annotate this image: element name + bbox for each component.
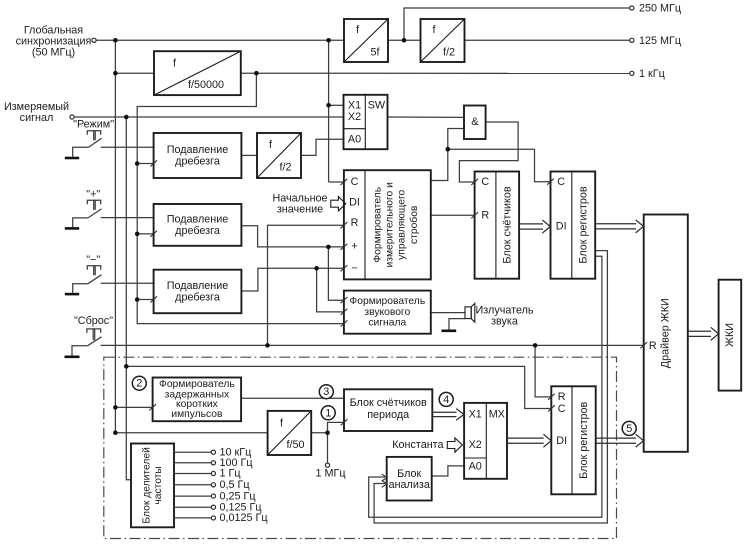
node label 3 [319,385,333,399]
svg-text:2: 2 [136,378,142,390]
wire: debounce 3 output to minus input of strobe former [241,268,344,291]
svg-text:R: R [481,210,489,222]
switch "Sbros" (push button) [72,329,102,356]
svg-text:C: C [481,176,489,188]
switch block SW with X1 X2 A0 [344,95,388,149]
label: Izluchatel zvuka [475,305,533,328]
node: clock tap debounce 2 [135,232,140,237]
terminal: 125 MHz output [630,38,634,42]
bus: LCD driver to LCD [688,327,719,340]
svg-text:анализа: анализа [389,479,430,491]
wire: Sbros reset line to LCD driver R [101,344,644,346]
wire: strobe-former output 1 to AND input 2 [431,129,464,181]
block arrow input: Konstanta to X2 [447,438,462,452]
wire: sound former output to sound emitter [431,312,465,314]
delayed short pulse former (Formirovatel zaderzhannykh korotkikh impulsov) [153,378,242,422]
terminal: 0,125 Hz output [174,506,211,508]
svg-text:0,0125 Гц: 0,0125 Гц [220,512,268,524]
svg-text:Блок регистров: Блок регистров [578,401,590,478]
svg-text:X2: X2 [348,111,361,123]
svg-text:ЖКИ: ЖКИ [724,323,736,347]
wire: minus switch to debounce 3 [101,282,154,284]
terminal: 1 Hz output [174,473,211,475]
svg-text:стробов: стробов [408,205,420,244]
multiplexer MX with X1 X2 A0 [464,403,507,479]
svg-text:A0: A0 [348,134,361,146]
LCD driver (Drayver ZhKI) [644,215,688,452]
svg-text:"Сброс": "Сброс" [74,315,113,327]
ground: Rezhim switch [65,157,79,160]
svg-text:f/2: f/2 [443,47,455,59]
ground: sound emitter [442,329,457,332]
svg-text:управляющего: управляющего [397,190,408,260]
wire: clock stub debounce 1 [137,163,153,165]
node label 2 [132,376,146,390]
svg-text:4: 4 [443,394,449,406]
wire: f/50000 output to 1 kHz terminal [241,72,630,74]
svg-text:5f: 5f [370,47,380,59]
wire: upper register stub 1 down to analysis block input 2 [374,251,607,523]
svg-text:Драйвер ЖКИ: Драйвер ЖКИ [660,298,672,368]
node label 5 [622,421,636,435]
node: delayed pulse former feed tap [113,405,118,410]
wire: stub to SW X1 [329,104,344,106]
AND gate U5 [464,106,486,140]
svg-text:R: R [351,217,359,229]
slash: lower register C [548,405,555,411]
node: minus branch tap [314,266,319,271]
wire: plus branch to sound former input 1 [328,247,344,300]
wire: reset branch down to R of lower register block [535,345,551,397]
svg-text:частоты: частоты [153,466,164,504]
svg-text:SW: SW [368,100,386,112]
svg-text:Подавление: Подавление [167,144,229,156]
wire: measured signal to SW X2 [74,116,344,118]
svg-text:1 Гц: 1 Гц [220,468,241,480]
wire: minus branch to sound former input 2 [317,268,344,312]
svg-text:DI: DI [556,435,567,447]
terminal: 0,5 Hz output [174,484,211,486]
strobe former (Formirovatel izmeritelnogo i upravlyayushchego strobov) [344,170,431,279]
svg-text:X1: X1 [348,100,361,112]
svg-text:R: R [649,340,657,352]
node: AND input branch tap [446,147,451,152]
slash: strobe former plus [341,244,348,250]
wire: sound emitter return to ground [449,319,465,330]
counter block (Blok schetchikov) [475,172,519,279]
LCD (ZhKI) [719,280,742,391]
svg-text:Блок счётчиков: Блок счётчиков [502,186,514,263]
wire: clock stub debounce 2 [137,233,153,235]
svg-text:Блок регистров: Блок регистров [578,186,590,263]
slash: counter block R [471,212,478,218]
svg-text:+: + [351,241,357,253]
arrowhead: analysis block input 1 [382,474,387,481]
divider block U3 f/2 (top) [421,19,465,62]
wire: 50 MHz stub to delayed pulse former [115,406,152,408]
divider block U1 f/50000 [154,51,241,95]
wire: plus switch to debounce 2 [101,217,154,219]
svg-text:дребезга: дребезга [175,156,220,168]
terminal: 250 MHz output [630,6,634,10]
svg-text:звука: звука [491,315,518,327]
divider block U4 f/2 (debounce row) [257,133,301,178]
svg-text:дребезга: дребезга [175,292,220,304]
slash: LCD driver R [640,342,647,348]
block arrow input: Nachalnoe znachenie to DI [331,197,346,211]
slash: debounce 2 clock [150,231,157,237]
wire: 50 MHz vertical distribution [114,40,116,432]
wire: feed to f/50000 [115,72,154,74]
node: f/50 feed corner tap [113,430,118,435]
svg-text:Формирователь: Формирователь [349,296,425,307]
wire: strobe-former output 2 to R of counter block [431,214,475,216]
node: f/50000 feed tap [113,71,118,76]
wire: measured signal vertical down to frequency divider [126,117,131,480]
svg-text:X2: X2 [469,439,482,451]
terminal: 10 kHz output [174,451,211,453]
svg-text:3: 3 [323,386,329,398]
svg-text:250 МГц: 250 МГц [639,3,681,15]
wire: SW output to AND gate input 1 [388,116,465,118]
wire: f/2 output to SW A0 [301,139,344,155]
switch "+" (push button) [73,200,102,227]
svg-text:f/50: f/50 [286,439,304,451]
wire: C input of strobe former [329,181,344,183]
svg-text:Блок счётчиков: Блок счётчиков [350,397,427,409]
slash: strobe former C [341,179,348,185]
svg-text:−: − [351,263,357,275]
svg-text:R: R [558,391,566,403]
svg-text:1 МГц: 1 МГц [315,468,345,480]
debounce block 2 (Podavlenie drebezga) [154,204,242,246]
wire: 250 MHz branch [404,8,630,40]
node label 4 [439,392,453,406]
terminal: 0,25 Hz output [174,495,211,497]
label: Nachalnoe znachenie [272,193,327,216]
debounce block 3 (Podavlenie drebezga) [154,270,242,314]
terminal: 0,0125 Hz output [174,517,211,519]
terminal: global sync input [92,38,96,42]
switch "-" (push button) [73,266,102,293]
wire: analysis block output to mux A0 [432,466,464,476]
svg-text:f/2: f/2 [279,162,291,174]
svg-text:A0: A0 [469,460,482,472]
node: reset line tap right [533,343,538,348]
wire: debounce 2 output to plus input of strobe former [241,226,344,247]
wire: clock stub debounce 3 [137,299,153,301]
slash: sound former clock [341,320,348,326]
slash: lower register R [548,394,555,400]
slash: counter block C [471,179,478,185]
analysis block (Blok analiza) [387,457,432,501]
svg-text:DI: DI [349,197,360,209]
slash: debounce 1 clock [150,160,157,166]
slash: sound former input 2 [341,309,348,315]
node: clock tap debounce 3 [135,297,140,302]
terminal: 1 kHz output [630,71,634,75]
svg-text:X1: X1 [469,409,482,421]
wire: measured signal branch to C of lower register block [126,366,551,408]
wire: global sync line to f/5f [96,39,344,41]
bus: counter block to register block DI [519,220,550,233]
wire: 125 MHz output [465,39,630,41]
wire: Rezhim switch to debounce 1 [101,146,154,148]
slash: strobe former minus [341,265,348,271]
slash: sound former input 1 [341,297,348,303]
terminal: measured signal input [70,115,74,119]
node: plus branch tap [326,245,331,250]
bus: lower register to LCD driver (5) [596,434,644,447]
svg-text:значение: значение [277,203,323,215]
svg-text:сигнала: сигнала [368,318,406,329]
wire: 50 MHz vertical to SW.X1 and strobe-former C [328,40,330,182]
bus: mux to lower register DI [507,434,551,447]
svg-text:звукового: звукового [364,307,410,318]
wire: 50 MHz feed to f/50 [115,432,267,434]
label: Globalnaya sinkhronizatsiya (50 MGts) [16,25,92,59]
boundary of measuring section (dash-dot frame) [104,357,617,538]
wire: AND output to C of counter block [459,122,518,182]
node: 250MHz tap [402,38,407,43]
wire: upper register stub 2 down to analysis block input 1 [369,256,602,517]
node: 5f input tap [326,38,331,43]
svg-text:C: C [351,176,359,188]
sound former (Formirovatel zvukovogo signala) [344,291,431,334]
svg-text:Подавление: Подавление [167,214,229,226]
bus: upper register block to LCD driver [595,220,643,233]
node: SW X1 tap [326,103,331,108]
svg-text:Блок: Блок [397,468,421,480]
terminal: 100 Hz output [174,462,211,464]
switch "Rezhim" (push button) [73,131,102,157]
svg-text:125 МГц: 125 МГц [639,35,681,47]
svg-text:(50 МГц): (50 МГц) [32,47,75,59]
svg-text:C: C [558,403,566,415]
label: Izmeryaemyy signal [4,101,69,124]
sound emitter (Izluchatel zvuka) [465,303,475,322]
frequency divider bank (Blok deliteley chastoty) [131,444,174,528]
node label 1 [321,406,335,420]
svg-text:5: 5 [626,423,632,435]
wire: reset branch up to R of strobe former [268,225,344,345]
svg-text:импульсов: импульсов [171,409,223,420]
node: reset line tap left [265,343,270,348]
node: measured signal tap [124,115,129,120]
wire: 1 kHz down-branch to debounce clocks and sound clock [137,73,344,323]
svg-text:f/50000: f/50000 [188,79,224,91]
multiplier block U2 5f [344,19,388,62]
svg-text:&: & [471,116,479,128]
node: measured signal lower tap [124,364,129,369]
svg-text:"Режим": "Режим" [73,119,114,131]
register block upper (Blok registrov) [551,172,596,279]
ground: Sbros switch [65,355,80,358]
divider block U6 f/50 [268,411,312,455]
arrowhead: analysis block input 2 [382,480,387,487]
terminal: 1 MHz output [325,463,329,467]
svg-text:Блок делителей: Блок делителей [142,447,153,524]
ground: minus switch [65,293,79,296]
node: clock tap debounce 1 [135,161,140,166]
svg-text:DI: DI [556,220,567,232]
svg-text:0,5 Гц: 0,5 Гц [220,479,250,491]
bus: period counter to mux X1 [432,409,464,421]
register block lower (Blok registrov) [551,386,595,494]
svg-text:C: C [557,176,565,188]
wire: between f/5f and f/f2 [388,39,421,41]
svg-text:1 кГц: 1 кГц [639,68,665,80]
ground: plus switch [65,227,79,230]
slash: upper register C [547,179,554,185]
svg-text:дребезга: дребезга [175,225,220,237]
svg-text:MX: MX [489,409,505,421]
slash: delayed pulse former input [149,404,156,410]
node: 1kHz tap [254,71,259,76]
svg-text:1: 1 [325,407,331,419]
svg-text:"+": "+" [86,189,100,201]
svg-text:сигнал: сигнал [20,112,54,124]
svg-text:измерительного и: измерительного и [385,182,396,268]
slash: debounce 3 clock [150,296,157,302]
wire: 1 MHz down to terminal [327,433,329,463]
slash: period counter clock input [341,419,348,425]
wire: f/50 output 1 MHz node [311,432,327,434]
wire: branch to C of upper register block [448,149,551,182]
svg-text:Формирователь: Формирователь [372,187,383,263]
wire: 1 MHz up into period counter [328,422,345,432]
slash: strobe former R [341,222,348,228]
svg-text:"−": "−" [86,254,100,266]
wire: delayed pulse former output to period counter [241,397,344,399]
period counter block (Blok schetchikov perioda) [344,389,432,431]
debounce block 1 (Podavlenie drebezga) [154,133,242,178]
svg-text:Константа: Константа [392,439,443,451]
wire: debounce 1 to f/2 [241,154,257,156]
svg-text:Подавление: Подавление [167,280,229,292]
node: sync/50MHz tap [113,38,118,43]
node: 1 MHz tap [325,430,330,435]
svg-text:периода: периода [367,409,409,421]
